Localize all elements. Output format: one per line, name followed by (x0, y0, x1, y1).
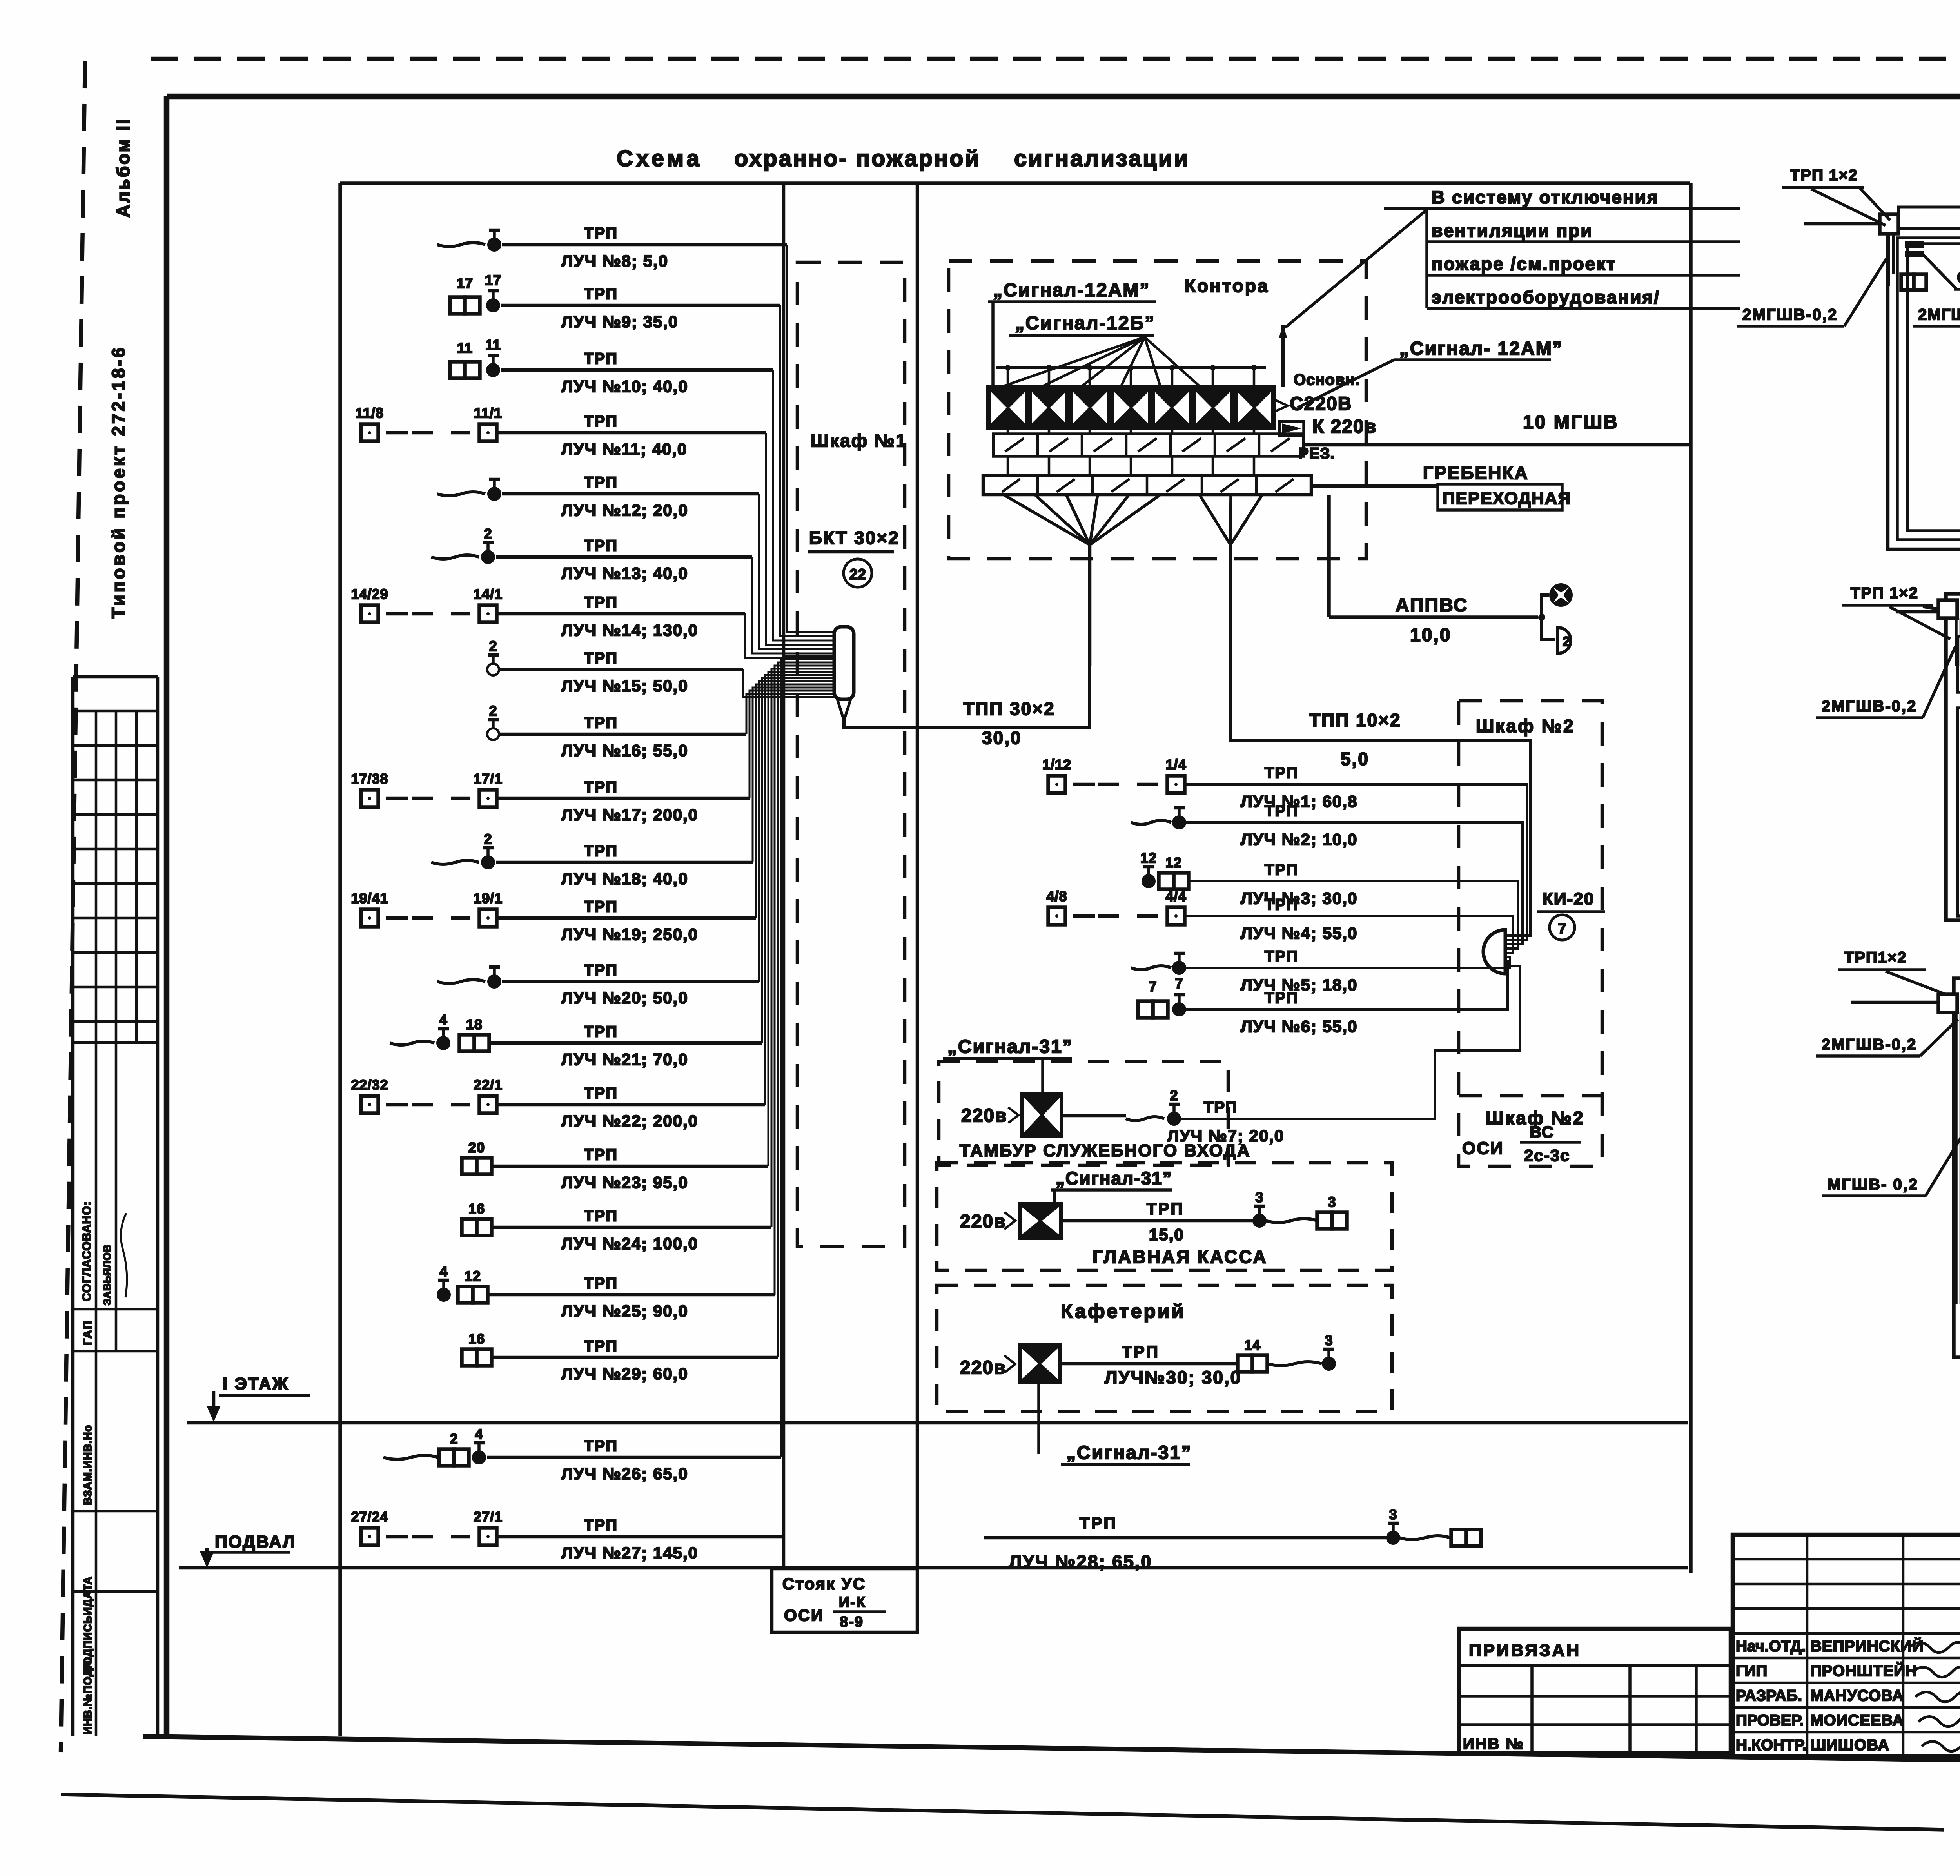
svg-text:МОИСЕЕВА: МОИСЕЕВА (1810, 1712, 1904, 1729)
svg-text:ЛУЧ №27; 145,0: ЛУЧ №27; 145,0 (561, 1544, 698, 1562)
svg-text:ТРП: ТРП (584, 1275, 618, 1292)
svg-text:ТРП: ТРП (1265, 764, 1298, 782)
svg-text:15,0: 15,0 (1149, 1225, 1184, 1244)
ray luch 22 (361, 1096, 378, 1113)
svg-text:10,0: 10,0 (1410, 625, 1451, 646)
svg-text:ТРП: ТРП (584, 1517, 618, 1534)
svg-text:МАНУСОВА: МАНУСОВА (1810, 1687, 1904, 1704)
TPP 30x2 wire from connector to kontora fan (844, 666, 1090, 727)
svg-text:ЛУЧ №17; 200,0: ЛУЧ №17; 200,0 (561, 806, 698, 824)
svg-text:19/41: 19/41 (351, 890, 388, 906)
svg-text:ТРП: ТРП (584, 1085, 618, 1102)
svg-text:11/1: 11/1 (474, 405, 502, 421)
X-box row (signal units) (987, 387, 1029, 428)
svg-text:ТРП: ТРП (584, 714, 618, 731)
svg-text:ТРП 1×2: ТРП 1×2 (1851, 584, 1918, 602)
ray luch 26 (383, 1455, 438, 1459)
signal-31 lower label (1037, 1384, 1040, 1454)
okno left feed wire (1804, 222, 1880, 226)
svg-text:220в: 220в (960, 1211, 1006, 1232)
okno smk sensors and boxes (1905, 241, 1924, 248)
fan from grebenka to risers (1004, 495, 1090, 545)
okno vertical drop wires (1887, 234, 1890, 286)
svg-text:РАЗРАБ.: РАЗРАБ. (1736, 1687, 1802, 1704)
svg-text:ЛУЧ №12; 20,0: ЛУЧ №12; 20,0 (561, 501, 688, 519)
svg-text:ЛУЧ №8; 5,0: ЛУЧ №8; 5,0 (561, 252, 668, 270)
grebenka strip (983, 475, 1311, 495)
svg-text:5,0: 5,0 (1341, 749, 1369, 769)
svg-text:7: 7 (1149, 978, 1157, 994)
svg-text:ЛУЧ №4; 55,0: ЛУЧ №4; 55,0 (1241, 924, 1357, 942)
svg-text:12: 12 (1165, 855, 1182, 871)
svg-text:2с-3с: 2с-3с (1524, 1146, 1570, 1165)
svg-text:Шкаф №1: Шкаф №1 (811, 430, 907, 451)
vitrage frame (1946, 594, 1960, 920)
svg-text:11: 11 (457, 340, 473, 356)
svg-text:ЛУЧ №21; 70,0: ЛУЧ №21; 70,0 (561, 1050, 688, 1069)
svg-text:1/12: 1/12 (1042, 757, 1071, 773)
svg-text:17: 17 (485, 272, 501, 288)
svg-text:Шкаф №2: Шкаф №2 (1476, 716, 1575, 736)
door frame (1954, 978, 1960, 1357)
svg-text:17: 17 (457, 275, 473, 291)
relay contact row (993, 434, 1303, 456)
svg-text:ИНВ №: ИНВ № (1463, 1735, 1524, 1753)
svg-text:10 МГШВ: 10 МГШВ (1523, 412, 1619, 433)
vitrage main pane (1958, 708, 1960, 916)
ray luch 9 (450, 297, 465, 314)
ray luch 2 (1131, 820, 1171, 824)
svg-text:ЛУЧ №24; 100,0: ЛУЧ №24; 100,0 (561, 1234, 698, 1253)
svg-text:3: 3 (1389, 1506, 1397, 1522)
appvs wire & alarms (1327, 495, 1331, 617)
svg-text:3: 3 (1255, 1189, 1263, 1205)
svg-text:ЛУЧ №23; 95,0: ЛУЧ №23; 95,0 (561, 1173, 688, 1192)
svg-text:Кафетерий: Кафетерий (1061, 1300, 1186, 1322)
svg-text:ЛУЧ №9; 35,0: ЛУЧ №9; 35,0 (561, 312, 678, 331)
svg-text:ТРП: ТРП (1265, 861, 1298, 878)
kontora dashed box (949, 261, 1366, 559)
svg-text:ЛУЧ №5; 18,0: ЛУЧ №5; 18,0 (1241, 976, 1357, 994)
svg-text:11: 11 (485, 337, 501, 353)
svg-text:7: 7 (1558, 921, 1566, 937)
svg-text:22: 22 (849, 566, 866, 583)
lamp (1542, 595, 1549, 617)
ray luch 29 (462, 1349, 477, 1366)
svg-text:11/8: 11/8 (356, 405, 384, 421)
svg-text:Стояк УС: Стояк УС (782, 1575, 866, 1593)
svg-text:ТРП: ТРП (584, 898, 618, 915)
svg-text:ТРП: ТРП (584, 594, 618, 611)
svg-text:220в: 220в (961, 1105, 1007, 1126)
svg-text:I ЭТАЖ: I ЭТАЖ (223, 1374, 289, 1393)
ray luch 13 (431, 555, 479, 559)
svg-text:2МГШВ-0,2: 2МГШВ-0,2 (1822, 698, 1917, 715)
KI-20 connector (1483, 930, 1505, 974)
svg-text:ТРП: ТРП (584, 842, 618, 860)
svg-text:17/1: 17/1 (474, 771, 503, 787)
ray luch 10 (450, 362, 465, 378)
svg-text:ВЗАМ.ИНВ.Но: ВЗАМ.ИНВ.Но (82, 1425, 94, 1505)
staff table (1733, 1535, 1960, 1756)
ray luch 8 (437, 243, 485, 247)
svg-text:ЛУЧ №10; 40,0: ЛУЧ №10; 40,0 (561, 377, 688, 396)
stoyak box (772, 1569, 917, 1632)
shkaf N1 dashed box (797, 262, 905, 1246)
page border dashed top (151, 57, 1960, 61)
svg-text:ВС: ВС (1530, 1123, 1554, 1141)
svg-text:17/38: 17/38 (351, 771, 388, 787)
svg-text:пожаре /см.проект: пожаре /см.проект (1432, 254, 1617, 274)
svg-text:12: 12 (1140, 850, 1157, 866)
svg-text:ОСИ: ОСИ (784, 1606, 824, 1624)
svg-text:18: 18 (466, 1016, 483, 1032)
svg-text:2: 2 (484, 831, 492, 847)
okno frame (1888, 229, 1960, 549)
svg-text:2: 2 (489, 703, 497, 719)
svg-text:ГЛАВНАЯ КАССА: ГЛАВНАЯ КАССА (1093, 1246, 1268, 1267)
svg-text:ЛУЧ №16; 55,0: ЛУЧ №16; 55,0 (561, 741, 688, 760)
svg-text:„Сигнал-31”: „Сигнал-31” (947, 1036, 1073, 1057)
svg-text:ПРИВЯЗАН: ПРИВЯЗАН (1469, 1641, 1581, 1660)
svg-text:22/1: 22/1 (474, 1077, 503, 1093)
svg-text:Н.КОНТР.: Н.КОНТР. (1736, 1736, 1807, 1754)
svg-text:ЛУЧ №26; 65,0: ЛУЧ №26; 65,0 (561, 1464, 688, 1483)
ray luch 18 (431, 860, 479, 864)
svg-text:3: 3 (1328, 1194, 1336, 1210)
svg-text:2: 2 (484, 526, 492, 542)
svg-text:ТРП: ТРП (584, 1207, 618, 1225)
svg-text:„Сигнал-12Б”: „Сигнал-12Б” (1015, 313, 1155, 334)
svg-text:ТРП 1×2: ТРП 1×2 (1790, 167, 1858, 184)
okno junction boxes (1880, 214, 1898, 234)
luch 28 wire (984, 1536, 1388, 1540)
svg-text:ЛУЧ №15; 50,0: ЛУЧ №15; 50,0 (561, 677, 688, 695)
svg-text:ШИШОВА: ШИШОВА (1810, 1736, 1889, 1754)
svg-text:ПРОНШТЕЙН: ПРОНШТЕЙН (1810, 1662, 1917, 1680)
svg-text:27/1: 27/1 (474, 1509, 503, 1525)
ray luch 1 (1048, 776, 1065, 793)
svg-text:ТРП: ТРП (584, 1023, 618, 1040)
sidebar table (71, 677, 75, 1736)
svg-text:ПРОВЕР.: ПРОВЕР. (1736, 1712, 1804, 1729)
svg-text:ТРП: ТРП (1080, 1514, 1117, 1532)
svg-text:ТРП: ТРП (584, 650, 618, 667)
svg-text:КИ-20: КИ-20 (1543, 889, 1594, 909)
ray luch 16 (487, 728, 499, 740)
svg-text:электрооборудования/: электрооборудования/ (1432, 287, 1660, 307)
svg-text:БКТ 30×2: БКТ 30×2 (809, 528, 900, 548)
svg-text:ТПП 30×2: ТПП 30×2 (963, 699, 1055, 719)
svg-text:ВЕПРИНСКИЙ: ВЕПРИНСКИЙ (1810, 1637, 1924, 1655)
svg-text:ГИП: ГИП (1736, 1662, 1767, 1680)
callout diagonal leader (1384, 207, 1427, 210)
small reserve box (1279, 421, 1304, 435)
svg-text:И-К: И-К (839, 1594, 866, 1611)
svg-text:МГШВ- 0,2: МГШВ- 0,2 (1828, 1176, 1918, 1193)
main frame (167, 94, 1960, 100)
svg-text:ТРП: ТРП (584, 1437, 618, 1455)
shkaf N2 dashed box (1459, 701, 1602, 1166)
svg-text:2: 2 (1170, 1087, 1178, 1103)
svg-text:2МГШВ-0,2: 2МГШВ-0,2 (1822, 1036, 1917, 1053)
svg-text:Типовой проект 272-18-6: Типовой проект 272-18-6 (108, 345, 129, 619)
svg-text:ЛУЧ №11; 40,0: ЛУЧ №11; 40,0 (561, 440, 687, 458)
svg-text:ЛУЧ №18; 40,0: ЛУЧ №18; 40,0 (561, 869, 688, 888)
ray luch 11 (361, 424, 378, 441)
inner content box left edge (338, 183, 342, 1736)
ray luch 7 (1126, 1117, 1164, 1121)
svg-text:14: 14 (1244, 1337, 1261, 1353)
svg-text:16: 16 (468, 1331, 485, 1347)
svg-text:ТРП1×2: ТРП1×2 (1844, 949, 1907, 966)
ray luch 25 (438, 1289, 450, 1301)
svg-text:20: 20 (468, 1139, 485, 1156)
svg-text:ЛУЧ №25; 90,0: ЛУЧ №25; 90,0 (561, 1302, 688, 1320)
svg-text:ЛУЧ №29; 60,0: ЛУЧ №29; 60,0 (561, 1364, 688, 1383)
svg-text:РЕЗ.: РЕЗ. (1298, 445, 1335, 462)
ray luch 21 (390, 1041, 434, 1045)
svg-text:ТПП 10×2: ТПП 10×2 (1309, 710, 1401, 730)
page border dashed left (61, 61, 85, 1752)
ray luch 27 (361, 1528, 378, 1545)
door junction boxes (1938, 994, 1957, 1012)
svg-text:2МГШВ-0,2: 2МГШВ-0,2 (1918, 306, 1960, 323)
ray luch 23 (462, 1158, 477, 1174)
svg-text:ТАМБУР СЛУЖЕБНОГО ВХОДА: ТАМБУР СЛУЖЕБНОГО ВХОДА (960, 1141, 1251, 1160)
svg-text:14/29: 14/29 (351, 586, 388, 602)
svg-text:АППВС: АППВС (1396, 595, 1468, 616)
ray luch 3 (1143, 875, 1154, 887)
svg-text:ПОДВАЛ: ПОДВАЛ (215, 1532, 296, 1551)
svg-text:СОГЛАСОВАНО:: СОГЛАСОВАНО: (80, 1201, 93, 1301)
vitrage transom (1958, 636, 1960, 692)
svg-text:Альбом II: Альбом II (113, 118, 133, 218)
svg-text:ГРЕБЕНКА: ГРЕБЕНКА (1423, 463, 1529, 483)
ray luch 12 (437, 492, 485, 496)
svg-text:7: 7 (1175, 975, 1183, 991)
svg-text:220в: 220в (960, 1357, 1006, 1378)
svg-text:„Сигнал- 12АМ”: „Сигнал- 12АМ” (1399, 338, 1563, 359)
svg-text:2: 2 (450, 1431, 458, 1447)
ray luch 14 (361, 605, 378, 622)
svg-text:ТРП: ТРП (584, 285, 618, 303)
svg-text:ТРП: ТРП (584, 225, 618, 242)
svg-text:ИНВ.№ПОДЛ.: ИНВ.№ПОДЛ. (82, 1657, 94, 1734)
svg-text:3: 3 (1325, 1332, 1333, 1348)
door vertical drop wires (1955, 1012, 1958, 1304)
svg-text:ЛУЧ №20; 50,0: ЛУЧ №20; 50,0 (561, 989, 688, 1007)
svg-text:4/8: 4/8 (1046, 888, 1067, 904)
svg-text:30,0: 30,0 (982, 728, 1022, 748)
svg-text:ТРП: ТРП (1204, 1099, 1238, 1116)
page border bottom (61, 1794, 1944, 1830)
TPP 10x2 wire (1230, 666, 1530, 936)
svg-text:ТРП: ТРП (584, 537, 618, 554)
inner content box right edge (1689, 183, 1693, 1573)
vertical riser inside kontora (1281, 325, 1285, 387)
svg-text:Основн.: Основн. (1294, 371, 1360, 388)
svg-text:ТРП: ТРП (1122, 1343, 1160, 1361)
svg-text:охранно- пожарной: охранно- пожарной (734, 146, 980, 171)
svg-text:сигнализации: сигнализации (1014, 146, 1189, 171)
svg-text:ЛУЧ №13; 40,0: ЛУЧ №13; 40,0 (561, 564, 688, 582)
svg-text:ЛУЧ №6; 55,0: ЛУЧ №6; 55,0 (1241, 1017, 1357, 1036)
svg-text:Нач.ОТД.: Нач.ОТД. (1736, 1638, 1806, 1655)
glavnaya kassa dashed box (937, 1163, 1392, 1270)
svg-text:ТРП: ТРП (1265, 948, 1298, 965)
svg-text:ОСИ: ОСИ (1462, 1139, 1504, 1158)
svg-text:СМК: СМК (1957, 268, 1960, 287)
svg-text:ЛУЧ №22; 200,0: ЛУЧ №22; 200,0 (561, 1112, 698, 1130)
svg-text:ГАП: ГАП (81, 1320, 94, 1345)
circle 22 (844, 559, 872, 587)
svg-text:19/1: 19/1 (474, 890, 503, 906)
tambur dashed box (939, 1061, 1228, 1165)
svg-text:ТРП: ТРП (1265, 802, 1298, 820)
svg-text:ЛУЧ №19; 250,0: ЛУЧ №19; 250,0 (561, 925, 698, 943)
ray luch 4 (1048, 907, 1065, 925)
svg-text:ПЕРЕХОДНАЯ: ПЕРЕХОДНАЯ (1443, 489, 1571, 508)
svg-text:2: 2 (1563, 634, 1570, 649)
connector BKT (834, 627, 854, 699)
svg-text:ТРП: ТРП (1265, 989, 1298, 1007)
svg-text:ТРП: ТРП (584, 350, 618, 367)
svg-text:ЛУЧ №3; 30,0: ЛУЧ №3; 30,0 (1241, 889, 1357, 907)
svg-text:14/1: 14/1 (474, 586, 503, 602)
ray luch 17 (361, 790, 378, 807)
svg-text:4: 4 (439, 1263, 448, 1279)
svg-text:ТРП: ТРП (1265, 896, 1298, 913)
svg-text:ТРП: ТРП (584, 474, 618, 491)
svg-text:„Сигнал-12АМ”: „Сигнал-12АМ” (993, 280, 1150, 301)
svg-text:2МГШВ-0,2: 2МГШВ-0,2 (1742, 306, 1838, 323)
svg-text:К 220в: К 220в (1312, 416, 1377, 437)
vitrage junction boxes (1938, 600, 1957, 618)
svg-text:8-9: 8-9 (840, 1614, 864, 1630)
wires between rows (1007, 428, 1009, 434)
ray luch 5 (1131, 966, 1171, 970)
svg-text:Контора: Контора (1185, 276, 1269, 296)
svg-text:4/4: 4/4 (1165, 888, 1186, 904)
svg-text:1/4: 1/4 (1165, 757, 1186, 773)
svg-text:В систему отключения: В систему отключения (1432, 187, 1659, 207)
svg-text:ТРП: ТРП (584, 1146, 618, 1163)
svg-text:12: 12 (465, 1268, 481, 1284)
svg-text:ЛУЧ №14; 130,0: ЛУЧ №14; 130,0 (561, 621, 698, 639)
svg-text:ЛУЧ №2; 10,0: ЛУЧ №2; 10,0 (1241, 830, 1357, 849)
svg-text:ЛУЧ№30; 30,0: ЛУЧ№30; 30,0 (1105, 1367, 1241, 1388)
svg-text:22/32: 22/32 (351, 1077, 388, 1093)
privyazan table (1459, 1629, 1731, 1753)
svg-text:вентиляции при: вентиляции при (1432, 220, 1593, 241)
bell (1542, 617, 1555, 639)
svg-text:ТРП: ТРП (584, 1337, 618, 1355)
okno top bus (1898, 207, 1960, 224)
svg-text:ТРП: ТРП (1147, 1199, 1184, 1218)
svg-text:ЗАВЬЯЛОВ: ЗАВЬЯЛОВ (101, 1245, 113, 1305)
svg-text:„Сигнал-31”: „Сигнал-31” (1066, 1442, 1192, 1463)
kafeteriy dashed box (937, 1285, 1392, 1412)
ray luch 19 (361, 909, 378, 927)
okno panes (1907, 244, 1960, 531)
ray luch 15 (487, 664, 499, 675)
svg-text:ЛУЧ №28; 65,0: ЛУЧ №28; 65,0 (1009, 1551, 1152, 1572)
svg-text:27/24: 27/24 (351, 1509, 388, 1525)
svg-text:ЛУЧ №1; 60,8: ЛУЧ №1; 60,8 (1241, 792, 1357, 811)
svg-text:4: 4 (439, 1012, 447, 1028)
svg-text:ТРП: ТРП (584, 778, 618, 796)
svg-text:2: 2 (489, 638, 497, 654)
10 MGShV wire (1303, 443, 1355, 447)
column separator lines (782, 183, 786, 1569)
svg-text:4: 4 (475, 1426, 483, 1442)
ray luch 20 (437, 980, 485, 983)
svg-text:Схема: Схема (617, 146, 702, 171)
svg-text:ТРП: ТРП (584, 413, 618, 430)
ray luch 6 (1138, 1001, 1153, 1018)
svg-text:16: 16 (468, 1201, 485, 1217)
tambur 220v unit (1020, 1092, 1063, 1138)
svg-text:ТРП: ТРП (584, 962, 618, 979)
svg-text:„Сигнал-31”: „Сигнал-31” (1056, 1168, 1172, 1188)
ray luch 24 (462, 1219, 477, 1236)
